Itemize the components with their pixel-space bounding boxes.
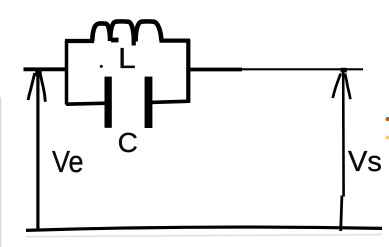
right arrowhead left stroke	[333, 74, 341, 99]
faint left screen-edge line	[0, 97, 1, 247]
box top edge right segment	[160, 38, 191, 42]
inductor L coil hump 3	[136, 21, 162, 41]
label C	[118, 127, 138, 159]
wire top-left horizontal	[24, 67, 69, 71]
label Ve	[52, 144, 84, 180]
box bottom edge left segment	[66, 103, 107, 104]
bottom wire	[26, 227, 382, 230]
box right edge	[186, 40, 190, 103]
wire right thin segment	[241, 68, 363, 70]
box left edge	[65, 41, 69, 105]
capacitor C right plate	[145, 77, 153, 128]
left arrowhead right stroke	[40, 75, 45, 102]
orange speck upper right	[386, 117, 389, 121]
inductor L coil hump 1	[92, 23, 110, 41]
ghost echo under bottom wire	[26, 235, 382, 237]
left vertical wire	[36, 70, 39, 230]
stray ink dot	[100, 65, 103, 68]
orange speck lower right	[386, 136, 389, 140]
right arrowhead tip blob	[341, 68, 347, 73]
inductor L coil hump 2	[110, 21, 134, 41]
right vertical wire lower segment	[341, 196, 342, 232]
right vertical wire upper segment	[342, 71, 345, 197]
label Vs	[348, 146, 382, 179]
wire right thick segment	[189, 68, 242, 72]
inductor loop down-stroke between humps 1-2	[108, 31, 112, 42]
left arrowhead left stroke	[28, 73, 35, 100]
inductor loop down-stroke between humps 2-3	[132, 31, 136, 46]
left arrowhead tip blob	[35, 71, 41, 77]
label L	[118, 43, 136, 76]
capacitor C left plate	[105, 77, 112, 128]
right arrowhead right stroke	[345, 74, 350, 100]
inductor base widening at hump 2 left foot	[111, 38, 119, 43]
box top edge left segment	[65, 39, 94, 43]
box bottom edge right segment	[151, 101, 191, 102]
